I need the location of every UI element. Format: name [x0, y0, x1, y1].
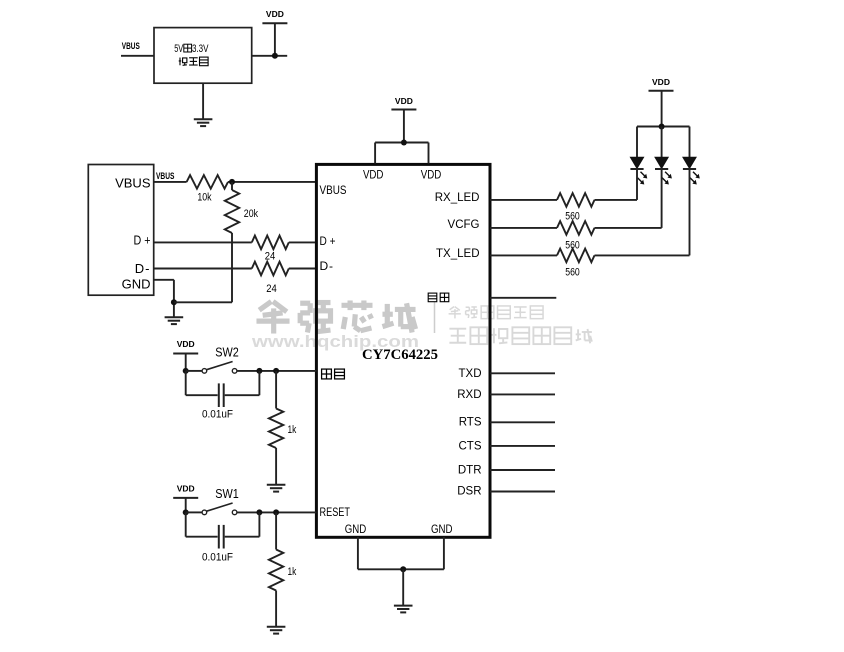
svg-text:VDD: VDD: [421, 168, 442, 182]
svg-text:10k: 10k: [197, 192, 212, 204]
svg-text:SW2: SW2: [215, 344, 239, 359]
svg-text:RXD: RXD: [457, 389, 481, 401]
svg-text:1k: 1k: [288, 566, 297, 578]
svg-text:VDD: VDD: [363, 168, 384, 182]
svg-text:0.01uF: 0.01uF: [202, 409, 233, 421]
svg-text:D +: D +: [320, 234, 336, 248]
svg-text:560: 560: [565, 239, 580, 251]
svg-text:CY7C64225: CY7C64225: [362, 347, 438, 363]
svg-text:GND: GND: [122, 276, 151, 291]
svg-text:VDD: VDD: [652, 77, 670, 87]
svg-text:RESET: RESET: [320, 505, 351, 519]
svg-text:560: 560: [565, 210, 580, 222]
svg-text:560: 560: [565, 266, 580, 278]
svg-text:VBUS: VBUS: [115, 176, 151, 191]
svg-text:SW1: SW1: [215, 486, 239, 501]
svg-text:GND: GND: [431, 522, 453, 536]
svg-text:3.3V: 3.3V: [192, 43, 209, 55]
svg-text:TXD: TXD: [459, 368, 482, 380]
svg-text:D-: D-: [135, 261, 151, 276]
svg-text:VBUS: VBUS: [320, 183, 347, 197]
svg-text:CTS: CTS: [459, 440, 482, 452]
svg-text:1k: 1k: [288, 424, 297, 436]
svg-text:GND: GND: [345, 522, 367, 536]
svg-text:0.01uF: 0.01uF: [202, 552, 233, 564]
svg-text:RX_LED: RX_LED: [435, 192, 480, 204]
svg-text:DSR: DSR: [457, 486, 481, 498]
svg-text:24: 24: [266, 283, 277, 295]
svg-text:5V: 5V: [174, 43, 183, 55]
svg-text:D-: D-: [320, 259, 334, 273]
svg-text:VCFG: VCFG: [448, 219, 480, 231]
svg-text:VDD: VDD: [266, 9, 284, 19]
svg-text:D +: D +: [134, 232, 151, 247]
svg-text:24: 24: [265, 251, 276, 263]
svg-text:20k: 20k: [244, 208, 259, 220]
svg-text:VBUS: VBUS: [156, 171, 174, 181]
svg-text:VDD: VDD: [395, 96, 413, 106]
svg-text:DTR: DTR: [458, 464, 482, 476]
svg-text:VDD: VDD: [177, 339, 195, 349]
svg-text:VDD: VDD: [177, 483, 195, 493]
svg-text:RTS: RTS: [459, 417, 482, 429]
svg-text:VBUS: VBUS: [122, 41, 140, 51]
svg-text:TX_LED: TX_LED: [436, 248, 479, 260]
